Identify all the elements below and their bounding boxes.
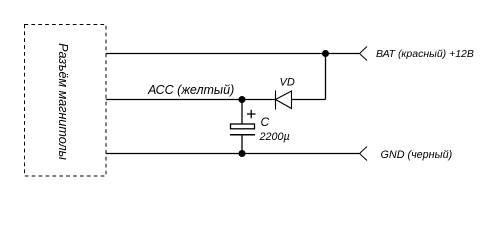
svg-text:GND (черный): GND (черный) bbox=[381, 149, 453, 161]
wire diode anode to riser bbox=[292, 99, 326, 101]
wire riser to BAT rail bbox=[325, 54, 327, 100]
connector box X1 (Разъём магнитолы) bbox=[25, 25, 107, 177]
wire GND (bottom rail) bbox=[106, 153, 359, 155]
diode VD bbox=[276, 91, 292, 110]
terminal fork GND bbox=[360, 147, 368, 161]
node junction on ACC wire bbox=[239, 96, 246, 103]
wire BAT (top rail) bbox=[106, 53, 359, 55]
node junction on BAT rail bbox=[322, 50, 329, 57]
wire ACC bbox=[106, 99, 275, 101]
svg-text:VD: VD bbox=[280, 77, 295, 89]
capacitor C (polarized) plus sign bbox=[247, 110, 256, 118]
node junction on GND rail bbox=[239, 150, 246, 157]
wire ACC node to capacitor bbox=[241, 100, 243, 125]
svg-text:Разъём магнитолы: Разъём магнитолы bbox=[56, 43, 70, 160]
svg-text:2200µ: 2200µ bbox=[259, 131, 290, 143]
svg-text:АСС (желтый): АСС (желтый) bbox=[147, 83, 234, 97]
svg-text:ВАТ (красный) +12В: ВАТ (красный) +12В bbox=[376, 48, 474, 60]
terminal fork BAT bbox=[360, 47, 368, 61]
svg-text:C: C bbox=[261, 115, 270, 129]
capacitor C bottom plate bbox=[230, 134, 255, 136]
capacitor C top plate bbox=[231, 124, 255, 129]
wire capacitor to GND rail bbox=[241, 135, 243, 154]
